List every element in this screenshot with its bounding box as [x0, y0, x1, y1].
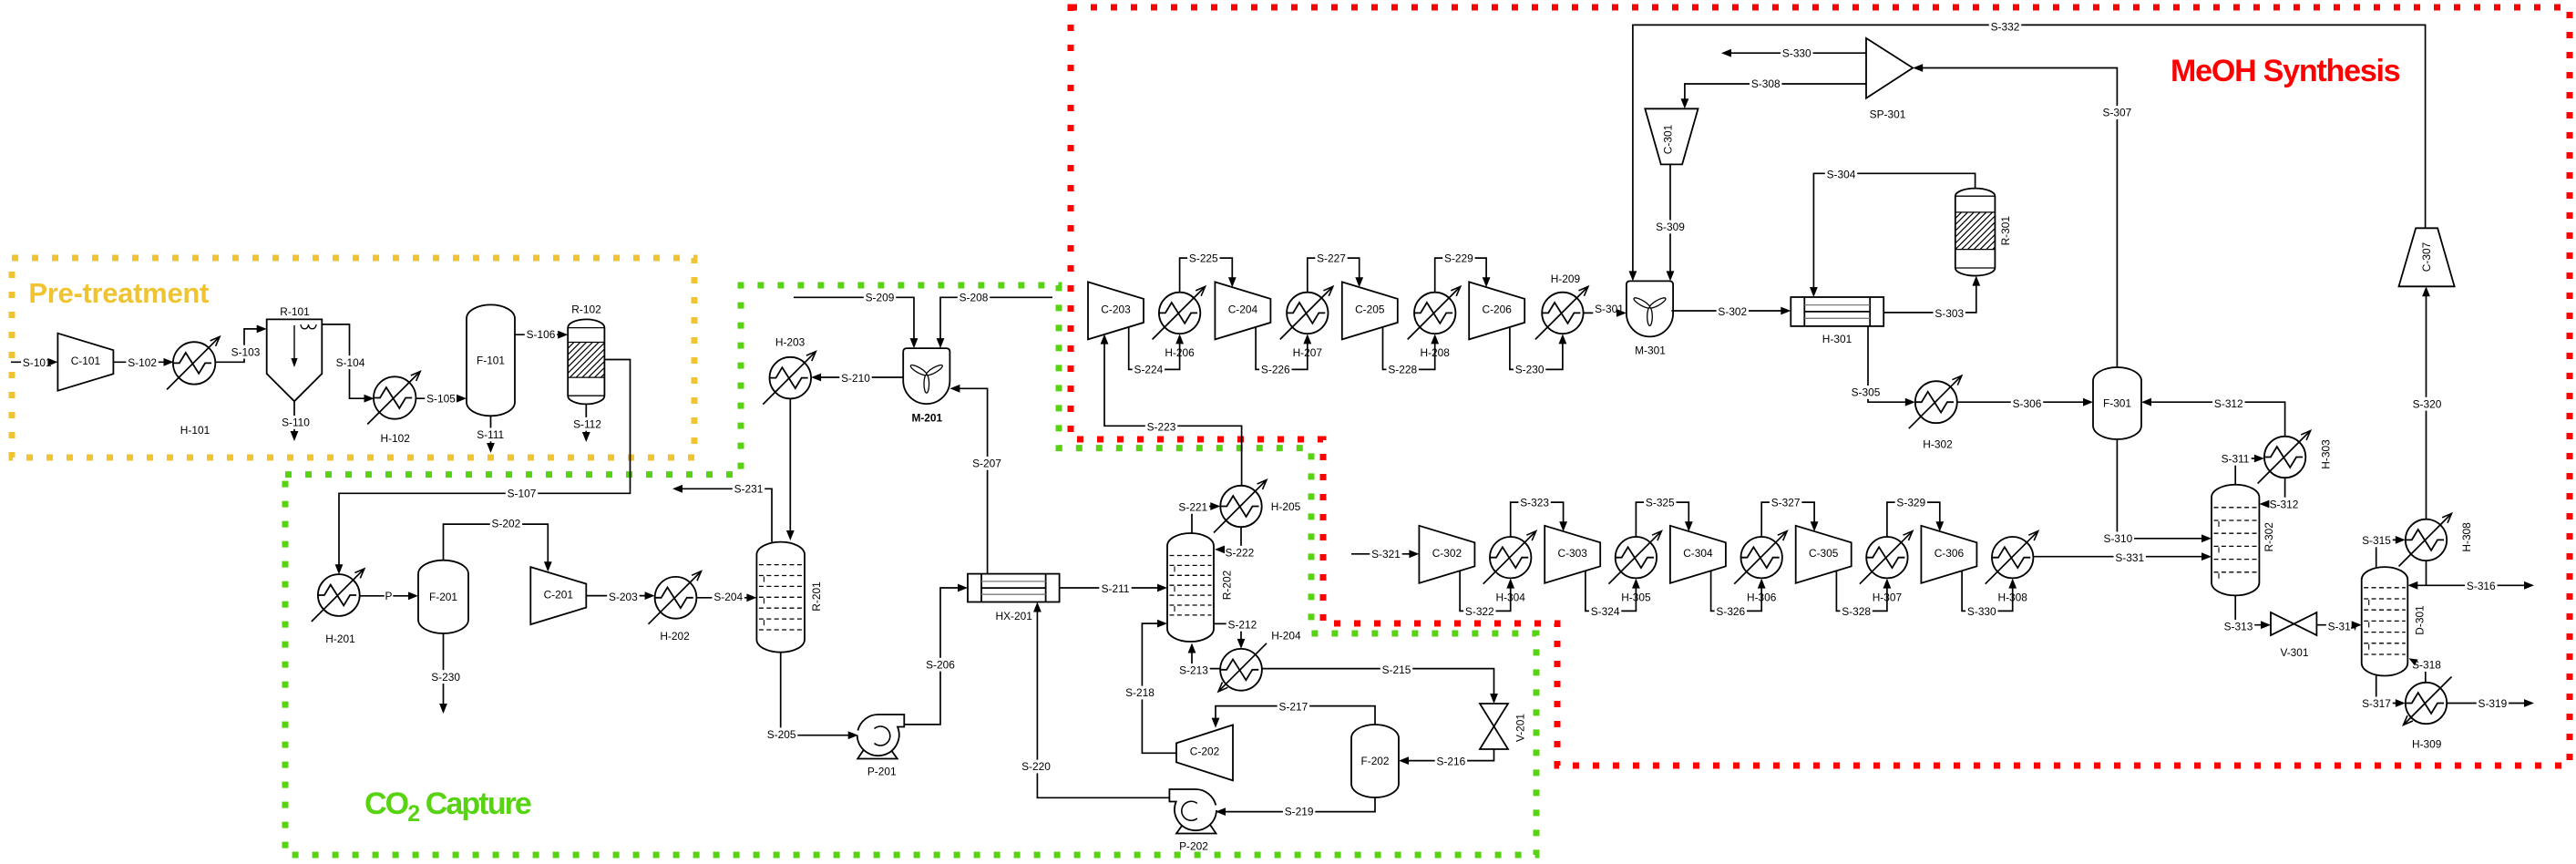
compressor C-302 [1419, 526, 1474, 583]
compressor C-201 [530, 567, 586, 624]
heat exchanger H-309 [2404, 677, 2452, 751]
stream S-103 [215, 325, 266, 363]
stream S-204 [696, 591, 756, 604]
stream S-323 [1511, 496, 1567, 537]
MeOH Synthesis section border (red dotted) [1071, 7, 2570, 766]
svg-text:F-101: F-101 [477, 355, 505, 367]
stream S-315 [2360, 534, 2406, 568]
heat exchanger H-307 [1860, 531, 1913, 604]
heat exchanger H-209 [1535, 273, 1588, 339]
svg-text:R-101: R-101 [280, 305, 310, 318]
stream S-224 [1129, 327, 1184, 376]
stream S-303 [1883, 276, 1980, 320]
svg-text:S-311: S-311 [2222, 453, 2250, 466]
svg-text:S-228: S-228 [1388, 364, 1417, 376]
svg-text:S-332: S-332 [1991, 20, 2020, 33]
heat exchanger H-206 [1153, 286, 1206, 359]
stream S-104 [322, 324, 374, 403]
stream S-211 [1060, 581, 1167, 595]
section title Pre-treatment [28, 277, 209, 309]
svg-text:S-221: S-221 [1178, 501, 1207, 514]
stream S-209 [794, 291, 918, 348]
svg-text:S-229: S-229 [1444, 252, 1473, 265]
svg-text:S-105: S-105 [426, 393, 456, 406]
svg-text:S-328: S-328 [1842, 605, 1871, 618]
stream S-312 [2259, 478, 2300, 510]
svg-text:S-206: S-206 [926, 658, 955, 671]
svg-text:S-111: S-111 [477, 428, 504, 441]
compressor C-101 [57, 334, 113, 391]
svg-text:S-304: S-304 [1827, 169, 1856, 181]
stream S-312 [2141, 397, 2285, 437]
stream S-330 [1962, 571, 2017, 618]
svg-text:S-307: S-307 [2103, 107, 2132, 119]
svg-text:S-227: S-227 [1317, 252, 1346, 265]
svg-text:S-324: S-324 [1591, 605, 1620, 618]
svg-text:S-320: S-320 [2413, 397, 2442, 410]
svg-text:S-209: S-209 [866, 292, 895, 304]
stream S-329 [1887, 496, 1944, 537]
svg-text:S-309: S-309 [1656, 221, 1685, 233]
stream S-317 [2360, 676, 2406, 711]
svg-text:S-107: S-107 [508, 488, 537, 500]
svg-text:H-308: H-308 [2460, 522, 2473, 552]
svg-text:S-101: S-101 [23, 356, 52, 369]
svg-text:S-112: S-112 [573, 418, 601, 431]
svg-text:S-215: S-215 [1382, 663, 1411, 676]
svg-text:V-201: V-201 [1514, 714, 1527, 742]
stream S-112 [571, 404, 603, 442]
svg-text:F-202: F-202 [1360, 755, 1389, 767]
svg-text:S-321: S-321 [1371, 548, 1401, 561]
reactor R-102 [533, 303, 636, 405]
svg-text:MeOH Synthesis: MeOH Synthesis [2171, 54, 2400, 88]
compressor C-205 [1342, 282, 1398, 339]
stream S-110 [280, 401, 312, 441]
svg-text:CO2 Capture: CO2 Capture [364, 787, 531, 827]
stream S-328 [1836, 571, 1891, 618]
stream S-215 [1262, 663, 1498, 704]
stream S-310 [2102, 439, 2212, 545]
svg-text:S-104: S-104 [336, 356, 365, 369]
heat exchanger H-208 [1408, 286, 1461, 359]
svg-text:S-218: S-218 [1125, 686, 1155, 699]
heat exchanger H-101 [167, 336, 220, 436]
svg-text:R-302: R-302 [2263, 522, 2275, 552]
svg-text:C-306: C-306 [1935, 547, 1965, 560]
svg-text:H-201: H-201 [325, 633, 355, 645]
svg-text:C-204: C-204 [1228, 303, 1258, 316]
stream S-305 [1850, 326, 1915, 406]
stream S-332 [1629, 20, 2426, 282]
svg-text:S-312: S-312 [2270, 498, 2299, 510]
svg-text:H-204: H-204 [1271, 630, 1301, 643]
svg-text:C-303: C-303 [1558, 547, 1588, 560]
svg-text:S-326: S-326 [1716, 605, 1745, 618]
svg-text:S-322: S-322 [1465, 605, 1494, 618]
svg-text:C-302: C-302 [1432, 547, 1462, 560]
stream S-217 [1212, 700, 1375, 728]
stream S-313 [2222, 595, 2271, 633]
svg-text:C-205: C-205 [1355, 303, 1385, 316]
svg-text:C-201: C-201 [544, 588, 574, 601]
stream S-218 [1124, 620, 1176, 754]
compressor C-304 [1670, 526, 1726, 583]
svg-text:S-302: S-302 [1718, 305, 1747, 318]
svg-text:S-306: S-306 [2013, 397, 2042, 410]
stream S-307 [1913, 64, 2133, 367]
compressor C-202 [1176, 725, 1233, 780]
svg-text:S-224: S-224 [1134, 364, 1164, 376]
stream S-302 [1671, 305, 1791, 319]
stream S-324 [1586, 571, 1640, 618]
svg-text:C-305: C-305 [1809, 547, 1839, 560]
svg-text:R-301: R-301 [1999, 216, 2012, 246]
heat exchanger H-207 [1280, 286, 1333, 359]
reactor R-101 [267, 305, 323, 401]
svg-text:C-101: C-101 [71, 355, 101, 367]
stream S-105 [416, 392, 467, 406]
stream S-226 [1256, 327, 1311, 376]
stream S-326 [1711, 571, 1766, 618]
CO2 Capture section border (green dotted) [285, 285, 1536, 855]
svg-text:C-307: C-307 [2420, 242, 2433, 272]
svg-text:F-301: F-301 [2103, 397, 2131, 410]
svg-text:S-103: S-103 [231, 345, 261, 358]
heat exchanger H-205 [1214, 480, 1301, 533]
svg-text:SP-301: SP-301 [1870, 108, 1906, 120]
heat exchanger H-308 [1986, 531, 2038, 604]
svg-text:HX-201: HX-201 [996, 610, 1033, 622]
heat exchanger H-203 [763, 335, 816, 404]
svg-text:S-231: S-231 [734, 483, 764, 496]
mixer M-201 [903, 348, 949, 424]
pump P-201 [857, 715, 905, 778]
svg-text:C-304: C-304 [1683, 547, 1713, 560]
svg-text:S-212: S-212 [1228, 619, 1257, 632]
svg-text:H-102: H-102 [381, 432, 411, 445]
svg-text:S-230: S-230 [431, 671, 460, 684]
svg-text:S-211: S-211 [1102, 582, 1130, 595]
svg-text:P-201: P-201 [867, 766, 897, 778]
svg-text:S-207: S-207 [972, 458, 1001, 470]
vessel F-301 [2093, 367, 2141, 439]
stream S-330 [1721, 46, 1866, 60]
svg-text:S-217: S-217 [1279, 701, 1309, 714]
stream S-309 [1654, 164, 1686, 281]
stream S-231 [672, 482, 772, 542]
compressor C-303 [1545, 526, 1600, 583]
stream S-210 [811, 372, 903, 386]
svg-text:S-319: S-319 [2479, 697, 2508, 710]
vessel F-202 [1351, 725, 1399, 797]
stream S-311 [2219, 452, 2264, 485]
svg-text:S-316: S-316 [2467, 580, 2496, 592]
svg-text:S-323: S-323 [1520, 497, 1549, 509]
pump P-202 [1169, 789, 1216, 853]
svg-text:S-220: S-220 [1021, 760, 1051, 773]
stream S-325 [1636, 496, 1692, 537]
heat exchanger H-102 [367, 372, 420, 446]
svg-text:C-301: C-301 [1662, 124, 1675, 154]
stream S-318 [2409, 658, 2443, 683]
Pre-treatment section border (yellow dotted) [12, 258, 694, 458]
svg-text:Pre-treatment: Pre-treatment [28, 277, 209, 309]
svg-text:S-110: S-110 [282, 417, 310, 429]
stream S-316 [2407, 561, 2534, 592]
stream S-205 [765, 653, 858, 742]
svg-text:S-226: S-226 [1261, 364, 1290, 376]
svg-text:S-312: S-312 [2214, 397, 2243, 410]
svg-text:S-222: S-222 [1226, 547, 1255, 560]
svg-text:R-201: R-201 [810, 581, 823, 612]
stream S-219 [1216, 797, 1375, 818]
stream S-208 [937, 291, 1052, 348]
heat exchanger H-306 [1734, 531, 1787, 604]
svg-text:V-301: V-301 [2280, 646, 2308, 659]
svg-text:H-203: H-203 [775, 335, 806, 348]
svg-text:H-303: H-303 [2319, 439, 2332, 469]
stream S-203 [586, 590, 655, 603]
svg-text:S-310: S-310 [2104, 532, 2133, 545]
svg-text:H-301: H-301 [1822, 333, 1852, 345]
stream S-221 [1177, 500, 1221, 533]
stream S-216 [1399, 749, 1494, 768]
stream S-304 [1810, 168, 1976, 297]
svg-text:S-303: S-303 [1935, 307, 1964, 320]
heat exchanger H-305 [1608, 531, 1661, 604]
svg-text:S-313: S-313 [2224, 621, 2253, 633]
stream S-225 [1180, 252, 1237, 293]
section title MeOH Synthesis [2171, 54, 2400, 88]
compressor C-301 [1645, 108, 1698, 164]
heat exchanger H-204 [1218, 630, 1301, 692]
stream S-212 [1214, 618, 1258, 649]
compressor C-306 [1921, 526, 1976, 583]
heat exchanger H-308 [2399, 513, 2474, 566]
svg-text:S-106: S-106 [527, 328, 556, 341]
svg-text:P: P [385, 590, 393, 602]
svg-text:R-102: R-102 [571, 303, 601, 316]
stream S-111 [475, 416, 507, 453]
heat exchanger H-202 [649, 571, 702, 643]
svg-text:C-206: C-206 [1483, 303, 1513, 316]
stream S-229 [1435, 252, 1491, 293]
stream S-321 [1351, 547, 1419, 561]
svg-text:H-202: H-202 [660, 630, 690, 643]
svg-text:S-325: S-325 [1646, 497, 1675, 509]
svg-text:S-219: S-219 [1285, 806, 1314, 818]
valve V-201 [1480, 704, 1527, 749]
svg-text:R-202: R-202 [1221, 570, 1234, 600]
svg-text:S-223: S-223 [1147, 421, 1176, 434]
stream S-222 [1215, 527, 1256, 560]
stream S-301 [1584, 302, 1627, 317]
heat exchanger H-303 [2258, 431, 2333, 484]
svg-text:M-201: M-201 [911, 411, 942, 424]
column R-302 [2212, 485, 2275, 596]
stream S-327 [1761, 496, 1818, 537]
column R-202 [1167, 533, 1234, 642]
heat exchanger HX-201 [968, 574, 1060, 622]
heat exchanger H-301 [1791, 297, 1883, 345]
section title CO2 Capture [364, 787, 531, 827]
vessel F-201 [418, 561, 468, 633]
mixer M-301 [1627, 281, 1673, 356]
stream S-227 [1308, 252, 1363, 293]
svg-text:F-201: F-201 [429, 591, 457, 603]
svg-text:S-225: S-225 [1189, 252, 1218, 265]
stream S-308 [1681, 77, 1867, 108]
svg-text:H-101: H-101 [180, 424, 210, 437]
compressor C-307 [2399, 228, 2455, 286]
svg-text:S-213: S-213 [1179, 664, 1208, 677]
stream S-319 [2447, 697, 2534, 711]
svg-text:H-209: H-209 [1551, 273, 1581, 285]
stream S-213 [1177, 643, 1220, 677]
svg-text:S-216: S-216 [1437, 756, 1466, 768]
heat exchanger H-302 [1909, 375, 1962, 451]
stream S-102 [113, 355, 173, 369]
valve V-301 [2271, 612, 2316, 659]
stream S-320 [2411, 286, 2443, 519]
svg-text:H-302: H-302 [1923, 438, 1953, 451]
svg-text:S-202: S-202 [492, 518, 521, 530]
svg-text:H-205: H-205 [1271, 500, 1301, 513]
svg-text:S-317: S-317 [2362, 697, 2391, 710]
compressor C-203 [1088, 282, 1144, 339]
svg-text:S-210: S-210 [841, 372, 870, 385]
svg-text:S-305: S-305 [1852, 386, 1881, 399]
stream S-331 [2033, 550, 2212, 564]
stream S-202 [444, 517, 552, 571]
svg-text:S-204: S-204 [713, 591, 743, 603]
heat exchanger H-304 [1483, 531, 1536, 604]
stream S-223 [1101, 334, 1242, 486]
compressor C-204 [1215, 282, 1270, 339]
wire H-203 outlet to R-201 top [786, 399, 795, 541]
svg-text:S-327: S-327 [1771, 497, 1801, 509]
heat exchanger H-201 [312, 569, 364, 645]
stream S-206 [904, 584, 968, 725]
stream S-107 [335, 360, 631, 575]
svg-text:H-309: H-309 [2412, 738, 2442, 751]
stream S-101 [11, 355, 57, 369]
compressor C-305 [1796, 526, 1852, 583]
stream S-207 [949, 385, 1002, 574]
column R-201 [756, 542, 823, 653]
svg-text:S-329: S-329 [1896, 497, 1925, 509]
svg-text:C-202: C-202 [1190, 746, 1220, 758]
stream S-322 [1460, 571, 1514, 618]
svg-text:P-202: P-202 [1179, 840, 1208, 853]
svg-text:C-203: C-203 [1101, 303, 1131, 316]
compressor C-206 [1469, 282, 1524, 339]
stream S-106 [515, 327, 568, 341]
svg-text:S-315: S-315 [2362, 534, 2391, 547]
svg-text:S-230: S-230 [1515, 364, 1545, 376]
stream S-220 [1020, 602, 1169, 798]
stream S-228 [1383, 327, 1440, 376]
stream S-314 [2316, 620, 2361, 633]
svg-text:S-331: S-331 [2115, 551, 2144, 564]
stream S-230 [1510, 327, 1566, 376]
stream P [360, 590, 418, 603]
stream S-306 [1957, 397, 2093, 411]
vessel F-101 [467, 304, 515, 416]
stream S-230 [429, 633, 461, 714]
column D-301 [2362, 567, 2427, 675]
svg-text:D-301: D-301 [2414, 605, 2427, 635]
svg-text:S-308: S-308 [1751, 77, 1781, 90]
reactor R-301 [1918, 189, 2029, 276]
svg-text:S-330: S-330 [1782, 46, 1811, 59]
splitter SP-301 [1866, 38, 1913, 120]
svg-text:S-102: S-102 [128, 356, 157, 369]
svg-text:S-208: S-208 [960, 292, 989, 304]
svg-text:M-301: M-301 [1635, 345, 1666, 357]
svg-text:S-205: S-205 [767, 728, 796, 741]
svg-text:S-203: S-203 [609, 591, 638, 603]
svg-text:S-330: S-330 [1967, 605, 1996, 618]
